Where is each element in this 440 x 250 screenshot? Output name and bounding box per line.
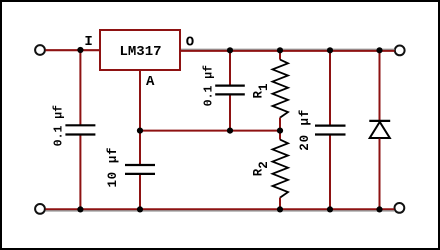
wire R column bottom xyxy=(279,198,281,210)
wire bottom ground rail xyxy=(46,208,395,210)
svg-text:A: A xyxy=(146,74,155,90)
node input junction xyxy=(77,47,83,53)
wire R middle xyxy=(279,118,281,140)
node D1 top junction xyxy=(376,47,382,53)
svg-text:20 µf: 20 µf xyxy=(298,109,312,151)
wire C4 column xyxy=(329,50,331,209)
resistor R2 xyxy=(273,140,289,198)
wire bottom ground rail shadow xyxy=(46,210,395,212)
wire diode column top xyxy=(379,50,381,121)
capacitor C4 20 µf xyxy=(315,126,346,135)
wire output rail shadow xyxy=(180,48,395,50)
op-amp U1 LM317 regulator box xyxy=(100,30,180,70)
wire middle adjust rail xyxy=(140,130,280,132)
terminal ground bottom-left xyxy=(35,204,45,214)
terminal output top-right xyxy=(395,46,405,56)
node C1 ground junction xyxy=(77,206,83,212)
terminal ground bottom-right xyxy=(395,203,405,213)
node C2 ground junction xyxy=(137,206,143,212)
terminal input top-left xyxy=(35,45,45,55)
node R divider junction xyxy=(277,128,283,134)
node C3 top junction xyxy=(227,47,233,53)
wire C1 column xyxy=(79,50,81,209)
node C3 bottom junction xyxy=(227,128,233,134)
svg-text:I: I xyxy=(84,34,92,50)
node R2 ground junction xyxy=(277,206,283,212)
node A middle junction xyxy=(137,128,143,134)
svg-text:10 µf: 10 µf xyxy=(106,147,120,188)
wire input rail xyxy=(46,49,101,51)
wire A pin column xyxy=(139,70,141,209)
wire C3 column xyxy=(229,50,231,131)
svg-text:0.1 µf: 0.1 µf xyxy=(52,105,65,147)
node D1 ground junction xyxy=(376,206,382,212)
svg-text:O: O xyxy=(186,35,194,51)
resistor R1 xyxy=(273,60,289,118)
capacitor C2 10 µf xyxy=(125,165,155,174)
node C4 ground junction xyxy=(327,206,333,212)
svg-text:LM317: LM317 xyxy=(119,44,161,60)
capacitor C1 0.1 µf xyxy=(65,125,95,134)
diode D1 xyxy=(369,121,390,138)
wire output rail xyxy=(180,50,395,52)
wire R column top xyxy=(279,50,281,60)
node R1 top junction xyxy=(277,47,283,53)
svg-text:0.1 µf: 0.1 µf xyxy=(202,65,215,107)
capacitor C3 0.1 µf xyxy=(215,86,245,95)
wire diode column bottom xyxy=(379,139,381,210)
node C4 top junction xyxy=(327,47,333,53)
